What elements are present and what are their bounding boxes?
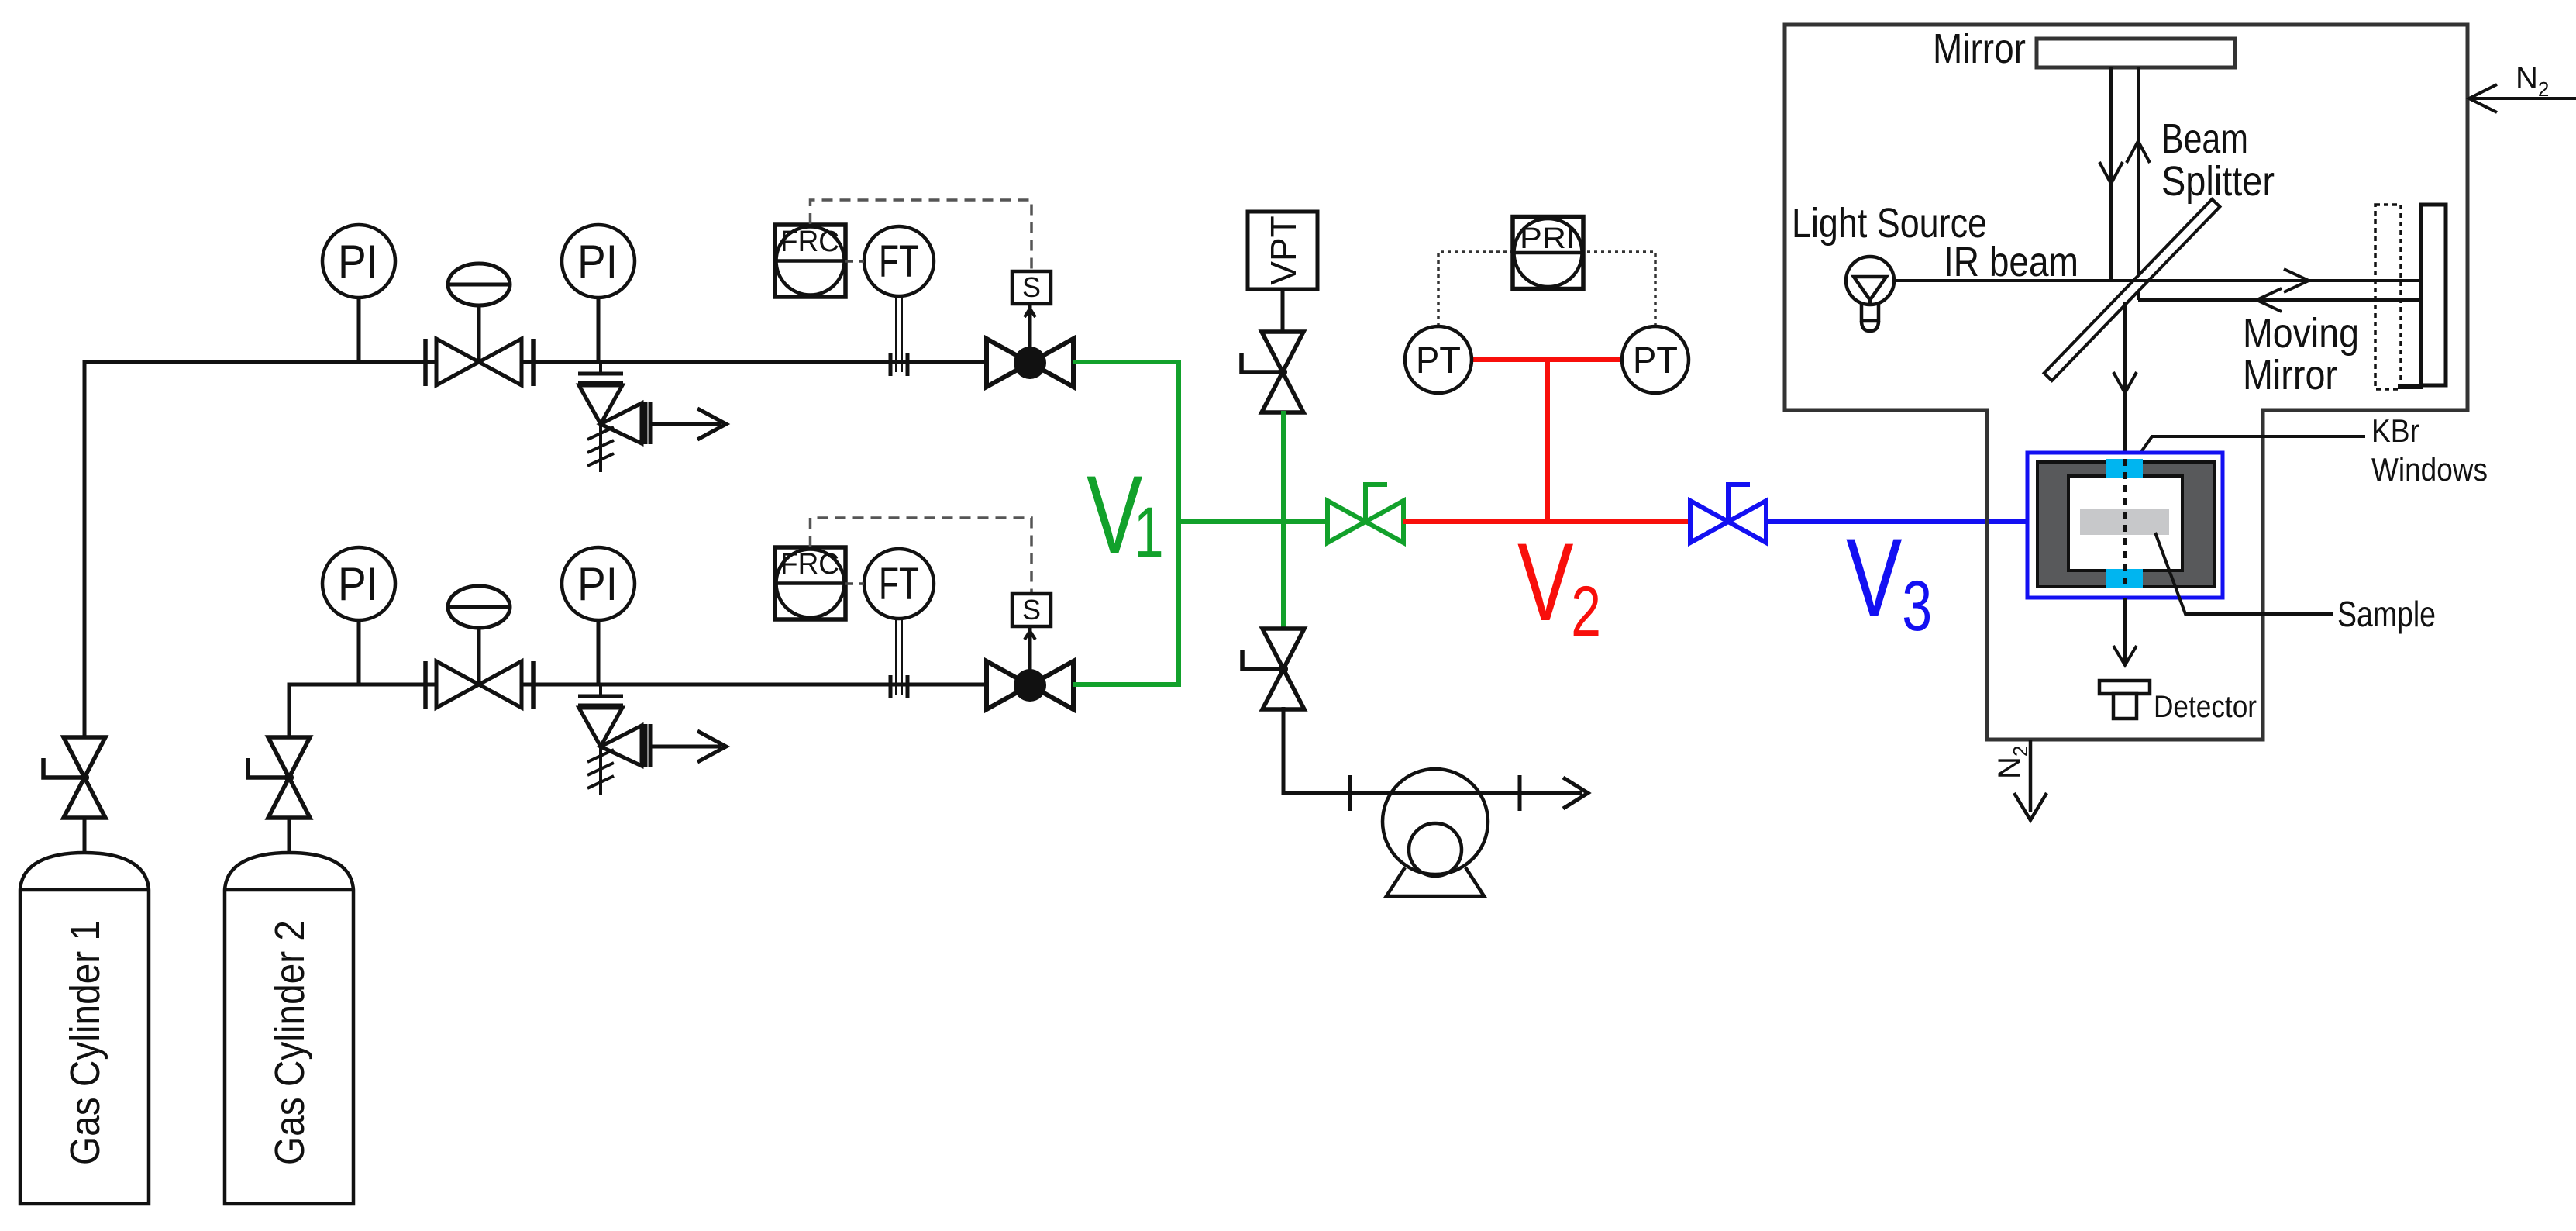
wire: red between PT <box>1472 357 1623 362</box>
tick: pump outlet <box>1518 775 1522 811</box>
flow transmitter FT1 <box>864 226 934 372</box>
vacuum pump <box>1383 769 1488 896</box>
svg-text:PT: PT <box>1416 340 1461 381</box>
valve to vacuum pump <box>1242 629 1304 709</box>
control valve CV1 <box>425 264 533 386</box>
arrow: N2 in <box>2469 84 2497 112</box>
svg-text:Mirror: Mirror <box>2243 352 2337 398</box>
svg-text:KBr: KBr <box>2371 412 2419 449</box>
solenoid valve SV1 <box>987 304 1073 387</box>
wire: branch 1 main pipe <box>84 360 989 364</box>
transmitter PT right <box>1622 326 1689 393</box>
wire: beam through cell (dashed) <box>2123 459 2127 588</box>
svg-text:PRI: PRI <box>1520 222 1576 255</box>
gas cell body <box>2037 462 2214 587</box>
pipe union <box>890 353 907 376</box>
arrow: down on left leg <box>2099 162 2123 184</box>
mirror (fixed) <box>2037 39 2235 67</box>
pipe union <box>890 675 907 698</box>
wire: red line <box>1403 519 1691 524</box>
svg-text:N2: N2 <box>1992 746 2032 779</box>
svg-text:Mirror: Mirror <box>1933 26 2026 72</box>
arrow: beam left <box>2257 288 2282 312</box>
svg-text:Moving: Moving <box>2243 310 2359 357</box>
signal wire FRC1 to S1 (dashed) <box>811 200 1032 271</box>
gauge PI2b <box>562 547 635 684</box>
wire: green vent branch vertical <box>1281 411 1286 629</box>
svg-text:IR beam: IR beam <box>1944 239 2078 285</box>
arrow: into detector <box>2113 646 2137 665</box>
sample holder <box>2080 509 2169 535</box>
wire: branch 2 main pipe <box>289 683 989 687</box>
arrow: up on right leg <box>2127 141 2150 163</box>
svg-text:V: V <box>1846 516 1903 640</box>
svg-text:Gas Cylinder 1: Gas Cylinder 1 <box>62 920 108 1165</box>
svg-text:Gas Cylinder 2: Gas Cylinder 2 <box>267 920 313 1165</box>
svg-text:Sample: Sample <box>2337 594 2436 634</box>
label V1 <box>1087 453 1164 577</box>
KBr window bottom <box>2106 569 2143 588</box>
svg-text:Detector: Detector <box>2154 690 2257 724</box>
wire: IR beam to moving mirror <box>1896 279 2421 282</box>
link at moving mirror base <box>2398 384 2423 389</box>
gas cell outer (blue) <box>2027 453 2223 598</box>
solenoid actuator S2 <box>1012 594 1051 626</box>
relief valve PSV2 <box>578 684 726 795</box>
svg-text:Beam: Beam <box>2161 116 2248 162</box>
beam splitter plate <box>2044 199 2220 381</box>
flow controller FRC1 <box>775 225 845 297</box>
tick: pump inlet <box>1348 775 1352 811</box>
arrow: exhaust <box>1563 778 1588 809</box>
valve V1 (green) <box>1328 484 1403 543</box>
label V3 <box>1846 516 1932 647</box>
signal wire FRC2 to S2 (dashed) <box>811 518 1032 594</box>
gas cylinder 2 <box>225 853 353 1204</box>
FTIR spectrometer enclosure <box>1785 25 2468 740</box>
svg-text:3: 3 <box>1902 567 1932 646</box>
signal wire FRC1 to FT1 (dashed) <box>845 260 864 263</box>
wire: N2 purge outlet <box>2029 740 2033 812</box>
wire: beam to detector <box>2123 598 2127 665</box>
signal wire PT-PRI (dotted) <box>1438 252 1655 326</box>
svg-text:VPT: VPT <box>1263 216 1303 284</box>
wire: N2 purge inlet <box>2472 97 2576 100</box>
svg-text:1: 1 <box>1134 493 1164 572</box>
wire: VPT stem <box>1281 289 1285 335</box>
wire: green outlet of SV1 <box>1073 360 1181 364</box>
KBr window top <box>2106 459 2143 478</box>
moving mirror travel (dashed) <box>2375 205 2401 389</box>
valve on cylinder 1 <box>43 737 105 818</box>
svg-text:N2: N2 <box>2516 61 2549 101</box>
arrow: beam right <box>2284 269 2309 292</box>
moving mirror <box>2421 205 2446 385</box>
gauge PI1a <box>322 225 395 362</box>
gauge PI2a <box>322 547 395 684</box>
arrow: N2 out <box>2014 793 2047 820</box>
svg-text:FRC: FRC <box>780 226 839 258</box>
transmitter PT left <box>1405 326 1472 393</box>
wire: green main line <box>1179 519 1330 524</box>
gauge PI1b <box>562 225 635 362</box>
wire: return beam from moving mirror <box>2138 298 2421 302</box>
wire: pump outlet over circle <box>1383 791 1582 795</box>
valve V3 (blue) <box>1690 484 1766 543</box>
detector <box>2099 681 2150 719</box>
svg-text:FRC: FRC <box>780 548 839 581</box>
svg-text:V: V <box>1517 520 1574 644</box>
wire: beam to fixed mirror (down leg) <box>2109 67 2113 281</box>
signal wire FRC2 to FT2 (dashed) <box>845 582 864 585</box>
gas cylinder 1 <box>20 853 149 1204</box>
wire: green header V1 vertical <box>1176 360 1181 687</box>
light source lamp <box>1846 257 1894 331</box>
svg-text:S: S <box>1022 271 1041 303</box>
svg-text:Windows: Windows <box>2371 451 2488 488</box>
pointer: KBr windows <box>2131 436 2365 466</box>
control valve CV2 <box>425 586 533 709</box>
svg-text:Splitter: Splitter <box>2161 158 2275 205</box>
flow controller FRC2 <box>775 547 845 619</box>
wire: beam from fixed mirror (up leg) <box>2137 67 2140 300</box>
transducer VPT <box>1248 212 1317 289</box>
recorder PRI <box>1513 217 1583 289</box>
solenoid actuator S1 <box>1012 271 1051 304</box>
wire: blue line to cell <box>1766 519 2029 524</box>
flow transmitter FT2 <box>864 549 934 695</box>
wire: cylinder 2 riser <box>289 684 291 853</box>
relief valve PSV1 <box>578 362 726 472</box>
label V2 <box>1517 520 1601 652</box>
wire: beam down to cell <box>2123 302 2127 452</box>
wire: cylinder 1 riser <box>84 362 87 853</box>
arrow: beam down <box>2113 372 2137 393</box>
solenoid valve SV2 <box>987 626 1073 709</box>
svg-text:2: 2 <box>1571 572 1601 651</box>
wire: green outlet of SV2 <box>1073 682 1181 687</box>
svg-text:PT: PT <box>1633 340 1678 381</box>
valve on cylinder 2 <box>248 737 310 818</box>
svg-text:S: S <box>1022 594 1041 626</box>
wire: to vacuum pump <box>1283 707 1582 793</box>
wire: red tee to PT pair <box>1545 360 1550 522</box>
pointer: sample <box>2155 533 2333 614</box>
valve below VPT <box>1242 332 1303 412</box>
